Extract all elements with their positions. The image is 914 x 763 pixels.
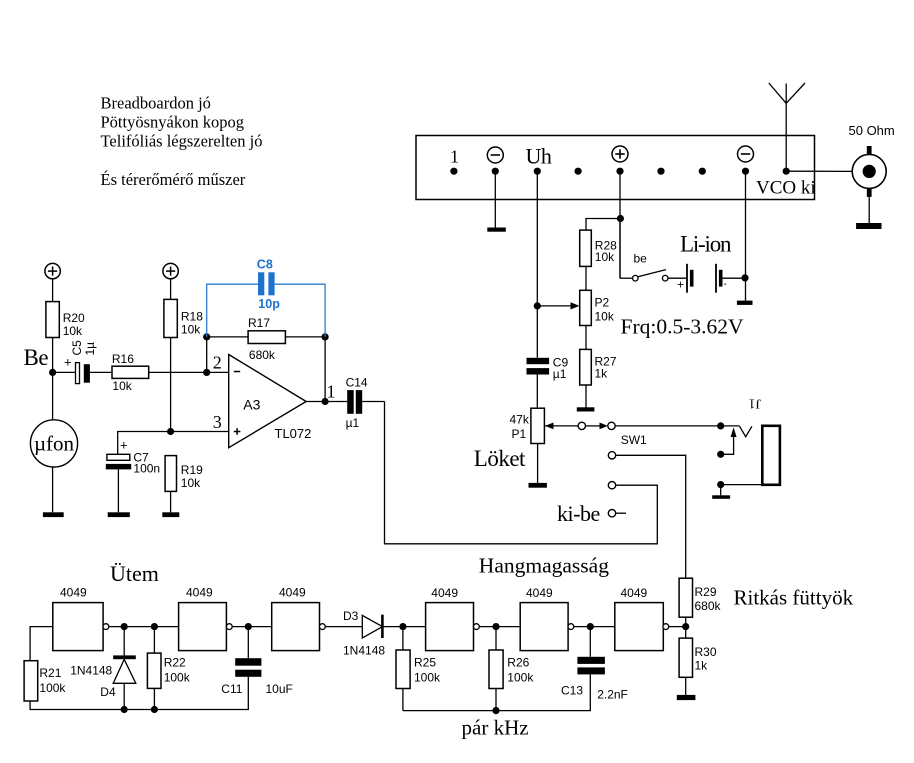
wire R19 to ground <box>170 491 172 512</box>
wire mic to ground <box>52 467 54 512</box>
switch be <box>633 252 669 282</box>
ground J1 <box>712 485 730 499</box>
capacitor C5 <box>64 340 97 384</box>
node D4 bottom <box>121 706 128 713</box>
svg-text:680k: 680k <box>695 599 722 613</box>
svg-text:µ1: µ1 <box>553 367 567 381</box>
ground C7 <box>108 512 130 517</box>
wire C5 to R16 <box>90 371 112 373</box>
resistor R16 <box>112 352 149 393</box>
wire bottom rail utem <box>30 677 248 710</box>
op-amp A3 <box>229 355 312 448</box>
resistor R17 <box>248 316 285 362</box>
svg-text:+: + <box>677 278 684 292</box>
ground mic <box>43 512 64 517</box>
svg-text:1N4148: 1N4148 <box>343 643 385 657</box>
svg-text:R16: R16 <box>112 352 134 366</box>
VCO module box <box>416 136 815 200</box>
svg-text:10k: 10k <box>595 250 615 264</box>
node R26 top <box>492 623 499 630</box>
ground R30 <box>677 695 696 700</box>
gate U1 4049 <box>53 586 109 651</box>
svg-text:És térerőmérő műszer: És térerőmérő műszer <box>101 170 246 189</box>
svg-text:Ritkás füttyök: Ritkás füttyök <box>734 586 854 610</box>
wire C14 out <box>362 401 384 403</box>
capacitor C9 <box>527 355 569 381</box>
wire minus1 down <box>494 171 496 227</box>
wire feedback to pin2 <box>206 337 208 373</box>
ground R19 <box>162 512 179 517</box>
svg-text:Uh: Uh <box>526 144 552 169</box>
ground battery <box>737 301 753 305</box>
svg-text:P1: P1 <box>512 427 527 441</box>
svg-text:C14: C14 <box>346 375 368 389</box>
node R26 bottom <box>492 707 499 714</box>
svg-text:100k: 100k <box>39 681 66 695</box>
wire R20 to mic <box>52 338 54 420</box>
wire plus1 to R20 <box>52 279 54 302</box>
svg-text:R19: R19 <box>181 463 203 477</box>
ground P1 <box>529 483 547 488</box>
svg-text:Löket: Löket <box>474 446 526 471</box>
svg-text:R21: R21 <box>39 666 61 680</box>
svg-text:be: be <box>634 252 648 266</box>
gate U3 4049 <box>272 586 326 651</box>
svg-text:Li-ion: Li-ion <box>680 232 732 257</box>
svg-text:4049: 4049 <box>526 586 553 600</box>
switch ki-be pole3 <box>608 510 626 517</box>
wire Uh down to C9 <box>536 171 538 358</box>
wire pole1 to R29 <box>616 455 686 578</box>
battery Li-ion <box>677 264 727 293</box>
svg-text:10uF: 10uF <box>266 682 293 696</box>
supply plus symbol left1 <box>45 263 60 278</box>
switch SW1 <box>578 422 647 447</box>
wire to be switch <box>620 277 633 279</box>
svg-text:2: 2 <box>213 353 222 373</box>
terminal minus symbol 1 <box>487 147 503 163</box>
svg-text:10k: 10k <box>112 379 132 393</box>
gate U5 4049 <box>520 586 574 651</box>
ground coax <box>856 223 881 229</box>
resistor R20 <box>46 302 85 338</box>
svg-text:C13: C13 <box>561 684 583 698</box>
microphone ufon <box>30 420 77 467</box>
jack J1 body <box>762 426 780 485</box>
wire gate5 out <box>574 626 615 628</box>
svg-text:4049: 4049 <box>186 586 213 600</box>
resistor R18 <box>164 299 203 337</box>
terminal minus symbol 2 <box>738 146 754 162</box>
node pin2 junction <box>203 369 210 376</box>
wire pin3 <box>118 432 229 455</box>
diode D3 <box>343 609 385 657</box>
svg-text:R30: R30 <box>695 645 717 659</box>
node feedback left <box>203 333 210 340</box>
diode D4 <box>70 627 136 710</box>
wire R27 to ground <box>585 385 587 408</box>
svg-text:R22: R22 <box>164 656 186 670</box>
svg-text:Ütem: Ütem <box>110 561 159 586</box>
svg-text:+: + <box>64 355 72 370</box>
wire plus terminal down <box>619 171 621 278</box>
note text block <box>101 94 263 190</box>
node pin3 junction <box>167 428 174 435</box>
capacitor C8 <box>257 257 280 311</box>
wire plus2 to R18 <box>170 279 172 300</box>
potentiometer P1 <box>510 408 545 443</box>
svg-text:Telifóliás légszerelten jó: Telifóliás légszerelten jó <box>101 132 263 151</box>
svg-text:R20: R20 <box>63 311 85 325</box>
wire minus2 down <box>745 171 747 300</box>
svg-text:2.2nF: 2.2nF <box>597 688 628 702</box>
P2 wiper arrow <box>537 302 579 309</box>
resistor R30 <box>679 638 717 695</box>
node Uh junction <box>534 302 541 309</box>
svg-text:pár kHz: pár kHz <box>462 716 529 740</box>
svg-text:SW1: SW1 <box>621 433 647 447</box>
svg-text:R25: R25 <box>414 655 436 669</box>
wire gate1 input <box>30 627 53 661</box>
wire plus to R28 <box>586 219 620 231</box>
svg-text:R26: R26 <box>507 655 529 669</box>
capacitor C14 <box>346 375 368 430</box>
svg-text:1µ: 1µ <box>83 342 97 356</box>
svg-text:10k: 10k <box>181 323 201 337</box>
svg-text:100k: 100k <box>507 670 534 684</box>
module pin dots <box>450 168 790 175</box>
wire bottom rail hang <box>403 675 590 711</box>
svg-text:ki-be: ki-be <box>557 501 600 526</box>
svg-text:1k: 1k <box>595 367 609 381</box>
capacitor C7 <box>106 438 160 476</box>
wire gate2 out <box>232 626 272 628</box>
terminal plus symbol <box>612 146 628 162</box>
wire switch to battery <box>668 277 686 279</box>
svg-text:100k: 100k <box>164 671 191 685</box>
wire battery to minus2 <box>723 277 745 279</box>
wire op-amp output <box>306 401 347 403</box>
wire gate1 out <box>109 626 179 628</box>
svg-text:680k: 680k <box>249 348 276 362</box>
svg-text:D4: D4 <box>100 685 116 699</box>
svg-text:D3: D3 <box>343 609 359 623</box>
wire C8 blue right <box>275 284 326 337</box>
svg-text:P2: P2 <box>595 295 610 309</box>
wire plus down to switch be <box>619 219 621 279</box>
ground minus1 <box>487 228 506 232</box>
svg-text:4049: 4049 <box>431 586 458 600</box>
node J1 sleeve <box>717 481 724 488</box>
resistor R22 <box>147 627 190 710</box>
capacitor C11 <box>221 627 293 696</box>
wire C8 blue <box>207 284 258 337</box>
wire C14 to ki-be <box>385 402 658 544</box>
node C11 top <box>245 623 252 630</box>
svg-text:C8: C8 <box>257 257 273 271</box>
wire feedback right <box>324 337 326 402</box>
wire C9 to P1 <box>536 375 538 409</box>
svg-text:µ1: µ1 <box>346 416 360 430</box>
svg-text:3: 3 <box>213 412 222 432</box>
svg-text:VCO ki: VCO ki <box>756 178 816 199</box>
resistor R28 <box>580 230 617 266</box>
wire P1 to ground <box>537 444 539 483</box>
switch ki-be pole2 <box>608 482 615 489</box>
wire gate4 out <box>479 626 520 628</box>
jack J1 tip contact <box>740 426 752 437</box>
gate U6 4049 <box>615 586 669 651</box>
jack J1 arrow contact <box>721 427 737 454</box>
node R22 bottom <box>151 706 158 713</box>
svg-text:A3: A3 <box>243 396 260 412</box>
svg-text:10k: 10k <box>595 309 615 323</box>
node J1 tip <box>717 422 724 429</box>
svg-text:C11: C11 <box>221 682 242 696</box>
svg-text:50 Ohm: 50 Ohm <box>849 123 895 138</box>
svg-text:1: 1 <box>450 147 459 167</box>
resistor R25 <box>396 627 441 711</box>
wire gate3 out <box>325 626 362 628</box>
svg-text:Be: Be <box>24 345 49 370</box>
svg-text:1: 1 <box>327 382 336 402</box>
svg-text:Hangmagasság: Hangmagasság <box>479 554 609 578</box>
svg-text:Breadboardon jó: Breadboardon jó <box>101 94 211 113</box>
resistor R27 <box>580 349 617 385</box>
svg-text:4049: 4049 <box>60 586 87 600</box>
node J1 mid <box>717 451 724 458</box>
node R25 top <box>399 623 406 630</box>
wire R28 to P2 <box>585 266 587 290</box>
node Be junction <box>49 369 56 376</box>
switch ki-be pole1 <box>608 452 615 459</box>
wire feedback horizontal <box>207 336 325 338</box>
svg-text:TL072: TL072 <box>275 426 312 441</box>
node feedback right <box>322 333 329 340</box>
svg-text:100n: 100n <box>133 461 160 475</box>
svg-text:R18: R18 <box>181 310 203 324</box>
svg-text:+: + <box>120 438 128 453</box>
svg-text:1k: 1k <box>695 659 709 673</box>
svg-text:10p: 10p <box>258 297 280 311</box>
svg-text:-: - <box>724 279 727 290</box>
wire SW1 to J1 <box>615 425 739 427</box>
wire R18 to pin3 <box>170 338 172 432</box>
wire Be to C5 <box>53 371 76 373</box>
wire J1 sleeve <box>721 484 762 486</box>
svg-text:4049: 4049 <box>279 586 306 600</box>
node plus junction <box>617 215 624 222</box>
resistor R19 <box>165 456 203 492</box>
gate U4 4049 <box>426 586 480 651</box>
wire C7 to ground <box>117 469 119 512</box>
capacitor C13 <box>561 627 628 702</box>
wire antenna to coax <box>786 170 852 172</box>
node battery junction <box>741 274 748 281</box>
resistor R21 <box>24 661 66 701</box>
svg-text:1N4148: 1N4148 <box>70 663 112 677</box>
wire gate6 out <box>669 626 686 628</box>
node output junction <box>322 398 329 405</box>
P1 wiper arrow <box>545 423 578 430</box>
svg-text:4049: 4049 <box>621 586 648 600</box>
node divider <box>682 623 689 630</box>
antenna <box>769 83 805 171</box>
ground R27 <box>577 407 595 411</box>
gate U2 4049 <box>179 586 233 651</box>
svg-text:10k: 10k <box>63 324 83 338</box>
svg-text:µfon: µfon <box>34 432 75 456</box>
svg-text:100k: 100k <box>414 670 441 684</box>
svg-text:C5: C5 <box>70 340 84 356</box>
resistor R29 <box>679 578 721 638</box>
node R22 top <box>151 623 158 630</box>
node C13 top <box>587 623 594 630</box>
svg-text:R17: R17 <box>248 316 270 330</box>
wire R16 to pin2 <box>149 371 229 373</box>
svg-text:10k: 10k <box>181 476 201 490</box>
svg-text:J1: J1 <box>749 396 761 411</box>
wire coax to ground <box>868 197 870 224</box>
svg-text:Pöttyösnyákon kopog: Pöttyösnyákon kopog <box>101 113 244 132</box>
coax connector J 50ohm <box>852 146 886 197</box>
resistor R26 <box>489 627 534 711</box>
wire P2 to R27 <box>585 326 587 350</box>
potentiometer P2 <box>580 290 615 325</box>
supply plus symbol left2 <box>163 263 178 278</box>
svg-text:R29: R29 <box>695 585 717 599</box>
wire D3 to gate4 <box>382 626 425 628</box>
svg-text:Frq:0.5-3.62V: Frq:0.5-3.62V <box>621 315 745 339</box>
node D4 top <box>121 623 128 630</box>
svg-text:47k: 47k <box>510 413 530 427</box>
